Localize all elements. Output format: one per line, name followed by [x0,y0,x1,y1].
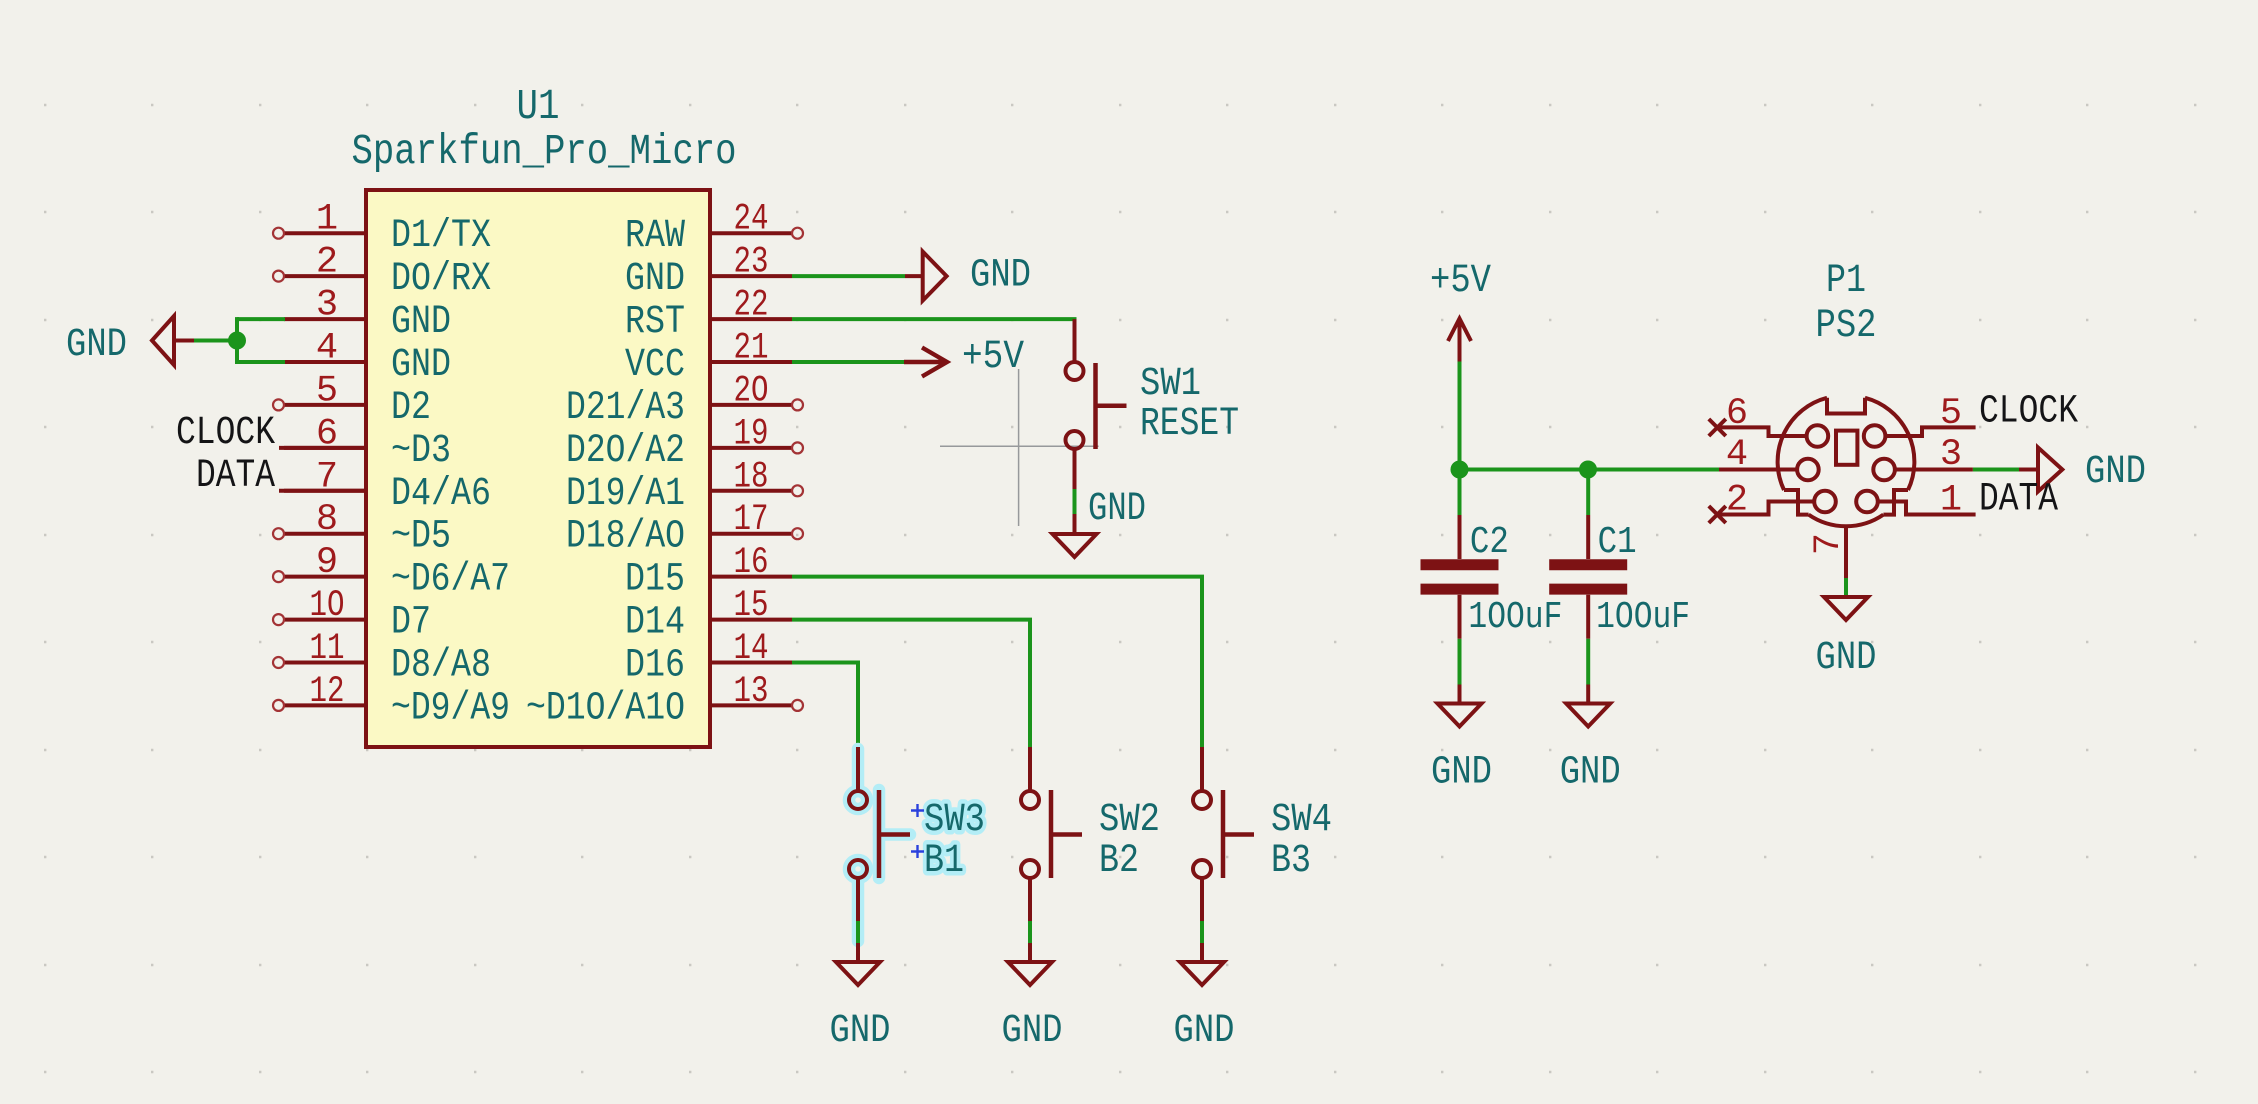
wire C1 to GND [1586,639,1590,685]
svg-text:12: 12 [310,671,345,713]
svg-text:11: 11 [310,628,345,670]
svg-text:+5V: +5V [1430,259,1491,304]
U1 pin 19 D20/A2 [566,413,803,474]
svg-text:B3: B3 [1271,839,1311,884]
svg-text:23: 23 [734,242,769,284]
svg-text:B1: B1 [924,839,964,884]
svg-text:VCC: VCC [625,343,685,388]
svg-text:Sparkfun_Pro_Micro: Sparkfun_Pro_Micro [352,127,737,176]
wire D16 pin14 to SW3 [792,663,858,748]
svg-text:1O: 1O [310,585,345,627]
wire +5V rail to P1 pin4 [1460,468,1720,472]
hierarchical label GND (pin 23) [905,252,1031,301]
P1 pin hole TR [1864,425,1886,447]
svg-text:9: 9 [316,542,338,584]
ground symbol below SW1 [1053,487,1147,557]
U1 pin 5 D2 [273,370,431,431]
svg-text:22: 22 [734,285,769,327]
net label CLOCK on pin 6 [176,411,366,456]
hierarchical label GND (P1 pin 3) [2019,448,2146,496]
svg-text:GND: GND [1431,751,1492,796]
svg-text:21: 21 [734,328,769,370]
svg-text:D4/A6: D4/A6 [391,472,491,517]
ground symbol below P1 pin 7 [1816,597,1877,681]
svg-text:GND: GND [2085,450,2146,495]
U1 pin 22 RST [625,285,792,346]
wire SW3 to GND [856,921,860,943]
IC U1 Sparkfun_Pro_Micro body [366,190,710,747]
svg-text:16: 16 [734,542,769,584]
svg-text:D1/TX: D1/TX [391,214,491,259]
U1 pin 18 D19/A1 [566,456,803,517]
svg-text:DATA: DATA [196,454,275,499]
wire pin4 to junction [237,360,285,364]
ground symbol below C1 [1560,685,1621,796]
wire RST pin22 to SW1 [792,317,1077,321]
junction at C2 [1451,461,1469,479]
svg-text:D2: D2 [391,386,431,431]
svg-text:15: 15 [734,585,769,627]
svg-text:8: 8 [316,499,338,541]
P1 pin 5 lead [1885,393,1975,436]
wire P1 pin3 to GND label [1973,468,2019,472]
svg-text:~D9/A9: ~D9/A9 [391,686,510,731]
ground symbol below C2 [1431,685,1492,796]
P1 pin 7 lead [1808,527,1850,578]
wire SW2 to GND [1028,921,1032,943]
U1 pin 3 GND [284,285,451,346]
svg-text:~D5: ~D5 [391,515,451,560]
svg-text:D19/A1: D19/A1 [566,472,685,517]
hierarchical label GND (left) [66,316,194,368]
svg-text:SW2: SW2 [1099,798,1160,843]
svg-text:C1: C1 [1598,521,1637,564]
svg-text:D18/AO: D18/AO [566,515,685,560]
wire junction to C2 [1458,470,1462,516]
capacitor C1 100uF [1549,515,1627,639]
svg-text:C2: C2 [1470,521,1509,564]
P1 pin 3 lead [1895,434,1973,476]
wire junction to GND label [194,339,237,343]
U1 pin 11 D8/A8 [273,628,491,689]
U1 pin 13 ~D10/A10 [526,671,803,732]
U1 pin 9 ~D6/A7 [273,542,510,603]
P1 pin hole ML [1797,459,1819,481]
svg-text:D14: D14 [625,601,685,646]
svg-text:D15: D15 [625,558,685,603]
svg-text:24: 24 [734,199,769,241]
P1 center key rectangle [1836,431,1857,465]
svg-text:RST: RST [625,300,685,345]
svg-text:RAW: RAW [625,214,685,259]
svg-text:17: 17 [734,499,769,541]
svg-text:GND: GND [830,1009,891,1054]
svg-text:D16: D16 [625,644,685,689]
U1 pin 24 RAW [625,199,803,260]
connector P1 PS2 mini-DIN body [1778,398,1915,526]
wire P1 pin7 to GND [1844,578,1848,597]
svg-text:+5V: +5V [962,335,1024,380]
SW3 value B1 (selected) [911,839,964,884]
wire C2 to GND [1458,639,1462,685]
P1 pin hole BR [1856,491,1878,513]
svg-text:1OOuF: 1OOuF [1596,596,1690,639]
switch SW2 B2 [1021,747,1082,921]
svg-text:D2O/A2: D2O/A2 [566,429,685,474]
svg-text:5: 5 [316,370,338,412]
svg-text:GND: GND [391,343,451,388]
wire D14 pin15 to SW2 [792,620,1030,747]
U1 pin 8 ~D5 [273,499,451,560]
svg-text:7: 7 [1808,533,1850,555]
svg-text:GND: GND [1088,487,1146,532]
U1 pin 17 D18/A0 [566,499,803,560]
wire SW1 to GND [1073,489,1077,514]
switch SW4 B3 [1193,747,1254,921]
wire pin 21 to +5V [792,360,904,364]
U1 pin 14 D16 [625,628,792,689]
switch SW3 B1 (selected) [849,747,910,941]
U1 pin 4 GND [284,328,451,389]
P1 pin hole MR [1873,459,1895,481]
U1 pin 21 VCC [625,328,792,389]
svg-text:4: 4 [1726,434,1748,476]
U1 pin 20 D21/A3 [566,370,803,431]
svg-text:DATA: DATA [1979,478,2058,523]
U1 pin 6 ~D3 [284,413,451,474]
wire pin 23 to GND label [792,274,905,278]
svg-text:DO/RX: DO/RX [391,257,491,302]
junction at C1 [1579,461,1597,479]
svg-text:SW1: SW1 [1140,362,1201,407]
SW3 reference label (selected) [911,798,985,843]
U1 pin 23 GND [625,242,792,303]
svg-text:GND: GND [1174,1009,1235,1054]
ground symbol below SW3 [830,943,891,1054]
wire SW4 to GND [1200,921,1204,943]
wire junction to C1 [1586,470,1590,516]
svg-text:B2: B2 [1099,839,1139,884]
svg-text:CLOCK: CLOCK [1979,390,2078,435]
cursor crosshair [940,369,1099,526]
P1 pin hole TL [1807,425,1829,447]
svg-text:2: 2 [1726,480,1748,522]
svg-text:GND: GND [970,254,1031,299]
wire vertical junction riser [235,317,239,364]
svg-text:3: 3 [1940,434,1962,476]
svg-text:19: 19 [734,413,769,455]
svg-text:~D3: ~D3 [391,429,451,474]
P1 pin hole BL [1814,491,1836,513]
wire pin3 to junction [237,317,285,321]
net label DATA on pin 7 [196,454,366,499]
svg-text:13: 13 [734,671,769,713]
svg-text:3: 3 [316,285,338,327]
svg-text:CLOCK: CLOCK [176,411,275,456]
wire D15 pin16 to SW4 [792,577,1202,747]
svg-text:D7: D7 [391,601,431,646]
svg-text:GND: GND [1816,636,1877,681]
svg-text:GND: GND [1560,751,1621,796]
svg-text:GND: GND [625,257,685,302]
svg-text:6: 6 [1726,393,1748,435]
U1 pin 10 D7 [273,585,431,646]
switch SW1 RESET [1066,319,1127,489]
capacitor C2 100uF [1421,515,1499,639]
svg-text:P1: P1 [1826,259,1866,304]
svg-text:SW3: SW3 [924,798,985,843]
U1 pin 2 D0/RX [273,242,491,303]
power symbol +5V (rail) [1430,259,1491,362]
svg-text:5: 5 [1940,393,1962,435]
svg-text:D21/A3: D21/A3 [566,386,685,431]
U1 pin 1 D1/TX [273,199,491,260]
ground symbol below SW4 [1174,943,1235,1054]
svg-text:U1: U1 [517,82,560,131]
wire +5V down to junction [1458,362,1462,470]
svg-text:2: 2 [316,242,338,284]
P1 pin 2 lead with no-connect [1709,480,1814,524]
U1 pin 12 ~D9/A9 [273,671,510,732]
svg-text:D8/A8: D8/A8 [391,644,491,689]
svg-text:RESET: RESET [1140,402,1239,447]
svg-text:4: 4 [316,328,338,370]
svg-text:PS2: PS2 [1816,304,1877,349]
ground symbol below SW2 [1002,943,1063,1054]
svg-text:~D6/A7: ~D6/A7 [391,558,510,603]
P1 pin 1 lead [1878,480,1976,522]
P1 pin 6 lead with no-connect [1709,393,1807,436]
svg-text:GND: GND [1002,1009,1063,1054]
svg-text:14: 14 [734,628,769,670]
svg-text:18: 18 [734,456,769,498]
U1 pin 7 D4/A6 [284,456,491,517]
svg-text:GND: GND [391,300,451,345]
power symbol +5V (pin 21) [904,335,1024,380]
svg-text:~D1O/A1O: ~D1O/A1O [526,686,685,731]
svg-text:2O: 2O [734,370,769,412]
P1 pin 4 lead [1719,434,1797,476]
U1 pin 15 D14 [625,585,792,646]
svg-text:GND: GND [66,323,127,368]
svg-text:1: 1 [1940,480,1962,522]
svg-text:SW4: SW4 [1271,798,1332,843]
junction left GND node [228,332,246,350]
U1 pin 16 D15 [625,542,792,603]
svg-text:1OOuF: 1OOuF [1468,596,1562,639]
svg-text:1: 1 [316,199,338,241]
